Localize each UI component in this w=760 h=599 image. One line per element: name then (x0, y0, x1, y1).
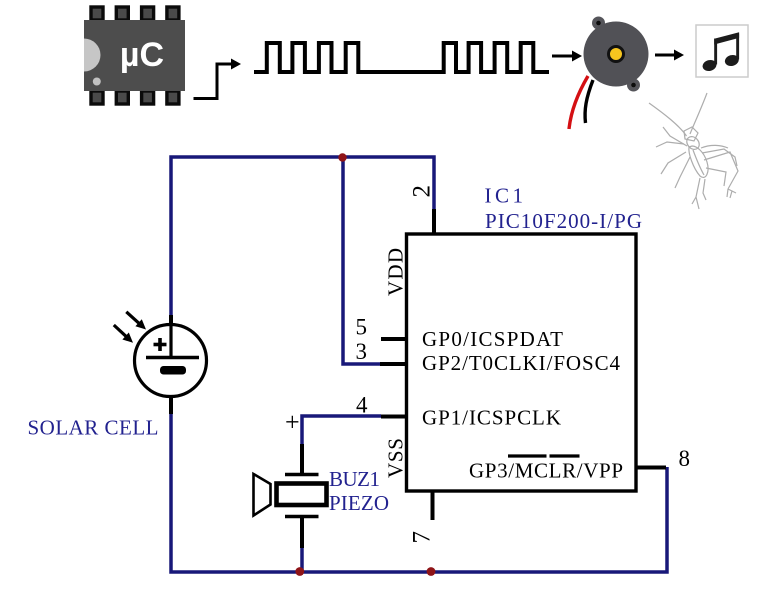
svg-text:GP3/MCLR/VPP: GP3/MCLR/VPP (469, 459, 623, 483)
svg-text:µC: µC (120, 36, 164, 74)
svg-text:2: 2 (409, 185, 436, 198)
svg-text:IC1: IC1 (485, 184, 524, 208)
svg-text:3: 3 (356, 339, 368, 364)
svg-text:4: 4 (356, 393, 368, 418)
svg-text:GP1/ICSPCLK: GP1/ICSPCLK (422, 406, 561, 430)
svg-text:BUZ1: BUZ1 (329, 467, 380, 491)
svg-text:8: 8 (679, 446, 691, 471)
svg-text:VDD: VDD (384, 248, 408, 296)
svg-text:PIC10F200-I/PG: PIC10F200-I/PG (485, 209, 642, 233)
svg-text:+: + (285, 408, 300, 437)
svg-text:SOLAR CELL: SOLAR CELL (28, 416, 159, 440)
svg-text:VSS: VSS (384, 438, 408, 478)
svg-text:7: 7 (409, 531, 436, 544)
svg-text:5: 5 (356, 315, 368, 340)
svg-text:PIEZO: PIEZO (329, 491, 389, 515)
svg-text:GP2/T0CLKI/FOSC4: GP2/T0CLKI/FOSC4 (422, 351, 621, 375)
